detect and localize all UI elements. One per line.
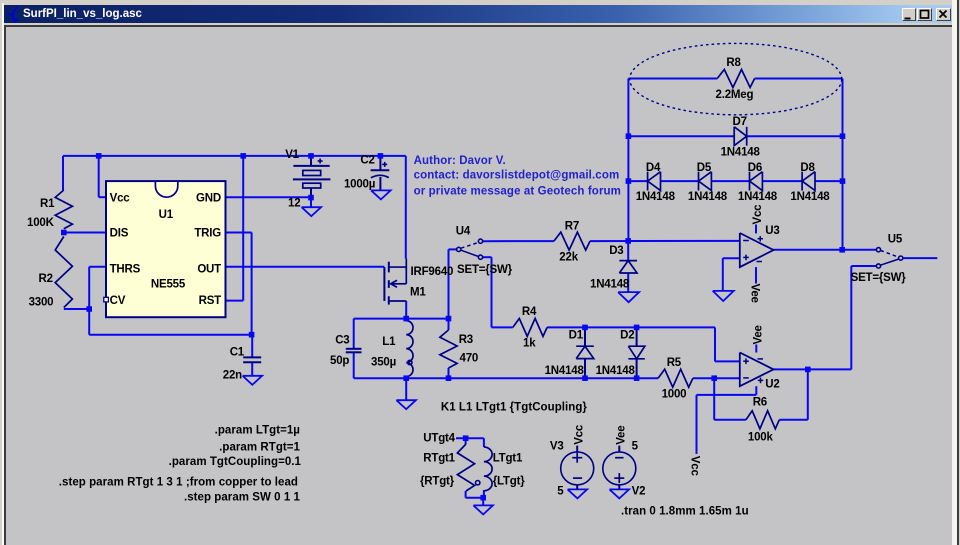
svg-text:RTgt1: RTgt1 bbox=[423, 452, 455, 464]
ground under C2 bbox=[371, 190, 391, 199]
svg-text:contact: davorslistdepot@gmail: contact: davorslistdepot@gmail.com bbox=[414, 170, 620, 182]
diode D5 bbox=[698, 172, 700, 191]
voltage source V2 bbox=[603, 452, 636, 485]
wire GND to battery bbox=[225, 196, 311, 198]
wire RST riser bbox=[242, 156, 244, 301]
ground under target bbox=[473, 505, 493, 514]
junction node P bbox=[634, 375, 640, 381]
junction node V bbox=[840, 178, 846, 184]
svg-text:NE555: NE555 bbox=[151, 279, 186, 291]
svg-text:CV: CV bbox=[110, 295, 126, 307]
IC U1 NE555 bbox=[106, 181, 226, 317]
wire R2 bottom bbox=[64, 308, 89, 310]
junction node E bbox=[308, 195, 314, 201]
wire bottom row bbox=[354, 377, 658, 379]
svg-text:Vcc: Vcc bbox=[752, 204, 764, 225]
resistor R5 bbox=[658, 369, 693, 387]
svg-text:R6: R6 bbox=[753, 397, 767, 409]
inductor LTgt1 bbox=[484, 447, 492, 491]
wire R3 leads bbox=[448, 319, 450, 330]
diode D8 bbox=[801, 172, 803, 191]
svg-text:1N4148: 1N4148 bbox=[590, 278, 630, 290]
resistor RTgt1 bbox=[457, 444, 474, 491]
svg-text:D6: D6 bbox=[748, 162, 762, 174]
junction node A bbox=[96, 153, 102, 159]
svg-text:Vee: Vee bbox=[615, 426, 627, 445]
resistor R2 bbox=[55, 237, 72, 308]
svg-text:3300: 3300 bbox=[29, 296, 54, 308]
svg-text:1k: 1k bbox=[523, 337, 536, 349]
wire drain row bbox=[354, 318, 449, 320]
junction node D bbox=[378, 153, 384, 159]
wire DIS bbox=[64, 232, 107, 234]
svg-text:.param TgtCoupling=0.1: .param TgtCoupling=0.1 bbox=[169, 456, 302, 468]
wire D2 stems bbox=[636, 327, 638, 346]
junction node J bbox=[446, 316, 452, 322]
junction node M bbox=[582, 325, 588, 331]
svg-text:U1: U1 bbox=[159, 209, 174, 221]
svg-text:{RTgt}: {RTgt} bbox=[420, 476, 455, 488]
wire U4 riser bbox=[448, 249, 450, 318]
junction node T bbox=[626, 178, 632, 184]
svg-text:U3: U3 bbox=[765, 225, 779, 237]
wire R6 feedback bbox=[713, 378, 715, 420]
voltage source V1 battery bbox=[310, 158, 312, 166]
ground under V3 bbox=[568, 489, 588, 498]
junction node X bbox=[805, 367, 811, 373]
wire D4 row bbox=[628, 180, 647, 182]
wire D1 stems bbox=[584, 327, 586, 346]
svg-text:SET={SW}: SET={SW} bbox=[457, 264, 513, 276]
inductor L1 bbox=[406, 321, 413, 377]
diode D3 bbox=[619, 260, 637, 262]
wire drain bbox=[405, 301, 407, 319]
ground under D3 bbox=[618, 292, 639, 302]
op-amp U3 bbox=[740, 233, 774, 267]
wire C1 bbox=[251, 335, 253, 358]
switch U5 bbox=[876, 248, 880, 252]
svg-text:D1: D1 bbox=[569, 329, 584, 341]
svg-text:22k: 22k bbox=[559, 251, 578, 263]
junction node G bbox=[86, 306, 92, 312]
wire R7 net bbox=[483, 240, 554, 242]
junction node U bbox=[840, 133, 846, 139]
svg-text:U2: U2 bbox=[765, 379, 779, 391]
svg-text:R3: R3 bbox=[459, 334, 473, 346]
svg-text:.step param RTgt 1 3 1 ;from c: .step param RTgt 1 3 1 ;from copper to l… bbox=[59, 476, 298, 488]
svg-text:1000: 1000 bbox=[662, 388, 687, 400]
svg-text:D8: D8 bbox=[800, 162, 815, 174]
svg-text:470: 470 bbox=[460, 353, 479, 365]
junction node Z bbox=[480, 495, 486, 501]
wire THRS loop bbox=[89, 266, 107, 268]
svg-text:C2: C2 bbox=[360, 154, 374, 166]
op-amp U2 bbox=[740, 353, 774, 387]
pin CV floating marker bbox=[104, 297, 109, 302]
svg-text:100k: 100k bbox=[748, 431, 774, 443]
resistor R7 bbox=[554, 232, 590, 250]
wire R4 row bbox=[547, 326, 715, 328]
svg-text:M1: M1 bbox=[410, 287, 426, 299]
wire UTgt top bbox=[456, 437, 484, 439]
svg-text:1N4148: 1N4148 bbox=[688, 191, 728, 203]
wire OUT to gate bbox=[225, 266, 384, 268]
svg-text:R4: R4 bbox=[522, 306, 537, 318]
svg-text:or private message at Geotech: or private message at Geotech forum bbox=[414, 186, 621, 198]
svg-text:Vee: Vee bbox=[748, 284, 760, 303]
svg-text:OUT: OUT bbox=[197, 263, 221, 275]
svg-text:D3: D3 bbox=[609, 245, 623, 257]
svg-text:{LTgt}: {LTgt} bbox=[493, 476, 526, 488]
junction node Q bbox=[711, 375, 717, 381]
ground under L1 bbox=[396, 400, 416, 409]
svg-text:.param RTgt=1: .param RTgt=1 bbox=[219, 441, 300, 453]
svg-text:5: 5 bbox=[557, 485, 564, 497]
wire U2 rails bbox=[755, 345, 757, 353]
diode D7 bbox=[734, 127, 747, 146]
svg-text:.tran 0 1.8mm 1.65m 1u: .tran 0 1.8mm 1.65m 1u bbox=[621, 506, 749, 518]
wire UTgt bottom bbox=[465, 491, 467, 498]
svg-text:Vcc: Vcc bbox=[689, 456, 701, 477]
svg-text:50p: 50p bbox=[330, 355, 349, 367]
svg-text:350µ: 350µ bbox=[371, 356, 396, 368]
svg-text:SET={SW}: SET={SW} bbox=[851, 272, 907, 284]
wire left vertical (R8 net) bbox=[627, 79, 629, 241]
wire D3 stems bbox=[627, 241, 629, 261]
junction node F bbox=[61, 230, 67, 236]
svg-text:.step param SW 0 1 1: .step param SW 0 1 1 bbox=[184, 491, 301, 503]
resistor R8 bbox=[717, 70, 754, 88]
ground under U3 plus input bbox=[713, 291, 734, 301]
svg-text:R7: R7 bbox=[565, 221, 579, 233]
resistor R3 bbox=[440, 330, 457, 368]
svg-text:5: 5 bbox=[632, 441, 639, 453]
svg-text:12: 12 bbox=[288, 198, 300, 210]
svg-text:THRS: THRS bbox=[110, 263, 141, 275]
svg-text:.param LTgt=1µ: .param LTgt=1µ bbox=[215, 424, 300, 436]
svg-text:R5: R5 bbox=[667, 357, 682, 369]
capacitor C3 bbox=[346, 348, 362, 350]
wire U3 output bbox=[774, 249, 877, 251]
svg-text:D2: D2 bbox=[620, 329, 634, 341]
junction node B bbox=[240, 153, 246, 159]
svg-text:RST: RST bbox=[199, 295, 222, 307]
diode D6 bbox=[749, 172, 751, 191]
transistor M1 IRF9640 bbox=[383, 267, 385, 301]
svg-text:D4: D4 bbox=[646, 162, 661, 174]
wire U4 to R4 bbox=[483, 256, 492, 258]
junction node R bbox=[625, 238, 631, 244]
svg-text:D7: D7 bbox=[733, 116, 747, 128]
ground under V2 bbox=[610, 489, 630, 498]
node Vcc pin riser bbox=[98, 156, 100, 197]
junction node N bbox=[634, 325, 640, 331]
wire right vertical bbox=[842, 79, 844, 250]
wire D7 row bbox=[628, 135, 734, 137]
junction node W bbox=[839, 247, 845, 253]
svg-text:1N4148: 1N4148 bbox=[738, 191, 778, 203]
resistor R4 bbox=[513, 318, 547, 336]
wire TRIG drop bbox=[225, 232, 252, 234]
ground under V1 bbox=[302, 207, 322, 216]
svg-text:Vcc: Vcc bbox=[110, 193, 131, 205]
svg-text:GND: GND bbox=[196, 193, 221, 205]
svg-text:DIS: DIS bbox=[110, 228, 129, 240]
ground under C1 bbox=[243, 376, 263, 385]
junction node C bbox=[308, 153, 314, 159]
svg-text:K1 L1 LTgt1 {TgtCoupling}: K1 L1 LTgt1 {TgtCoupling} bbox=[441, 402, 588, 414]
svg-text:V1: V1 bbox=[285, 149, 299, 161]
svg-text:R8: R8 bbox=[726, 57, 741, 69]
svg-text:R2: R2 bbox=[39, 273, 53, 285]
svg-text:C3: C3 bbox=[335, 334, 349, 346]
svg-text:Vcc: Vcc bbox=[573, 424, 585, 445]
wire U2 output bbox=[774, 368, 852, 370]
svg-text:1N4148: 1N4148 bbox=[636, 191, 676, 203]
svg-text:1N4148: 1N4148 bbox=[596, 365, 636, 377]
junction node S bbox=[626, 133, 632, 139]
junction node L bbox=[446, 375, 452, 381]
resistor R6 bbox=[746, 411, 779, 429]
diode D4 bbox=[647, 172, 649, 191]
resistor R1 bbox=[55, 190, 72, 229]
wire top rail bbox=[63, 155, 406, 157]
diode D1 bbox=[576, 345, 594, 347]
svg-text:U5: U5 bbox=[888, 234, 903, 246]
svg-text:LTgt1: LTgt1 bbox=[493, 452, 523, 464]
svg-text:TRIG: TRIG bbox=[194, 228, 221, 240]
switch U4 bbox=[457, 247, 461, 251]
svg-text:1N4148: 1N4148 bbox=[721, 147, 761, 159]
junction node O bbox=[582, 375, 588, 381]
capacitor C2 bbox=[379, 158, 381, 170]
svg-text:Author: Davor V.: Author: Davor V. bbox=[414, 155, 506, 167]
svg-text:1000µ: 1000µ bbox=[344, 179, 375, 191]
svg-text:R1: R1 bbox=[40, 198, 55, 210]
svg-text:1N4148: 1N4148 bbox=[790, 191, 830, 203]
wire R8 leads bbox=[628, 78, 717, 80]
wire U3 plus input ground bbox=[723, 257, 740, 259]
svg-text:D5: D5 bbox=[697, 162, 712, 174]
svg-text:V3: V3 bbox=[550, 441, 564, 453]
svg-text:2.2Meg: 2.2Meg bbox=[716, 89, 754, 101]
coupling ellipse bbox=[630, 43, 842, 114]
svg-text:C1: C1 bbox=[230, 346, 245, 358]
svg-text:22n: 22n bbox=[223, 370, 242, 382]
junction node I bbox=[403, 316, 409, 322]
junction node Y bbox=[463, 435, 469, 441]
voltage source V3 bbox=[561, 452, 594, 485]
junction node H bbox=[249, 332, 255, 338]
svg-text:L1: L1 bbox=[382, 336, 396, 348]
svg-text:Vee: Vee bbox=[752, 325, 764, 344]
junction node K bbox=[403, 375, 409, 381]
wire U5 output bbox=[903, 257, 938, 259]
svg-text:UTgt4: UTgt4 bbox=[423, 433, 455, 445]
wire L1 ground stem bbox=[405, 378, 407, 400]
svg-text:100K: 100K bbox=[27, 217, 55, 229]
capacitor C1 bbox=[243, 356, 261, 358]
svg-text:U4: U4 bbox=[456, 226, 471, 238]
svg-text:IRF9640: IRF9640 bbox=[411, 266, 454, 278]
svg-text:V2: V2 bbox=[632, 485, 646, 497]
diode D2 bbox=[628, 346, 644, 359]
wire U3 rails bbox=[755, 225, 757, 234]
svg-text:1N4148: 1N4148 bbox=[545, 365, 585, 377]
